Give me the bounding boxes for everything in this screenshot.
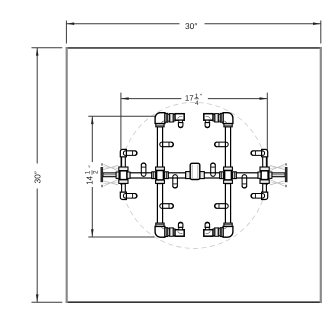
left column bottom elbow + nipple: [120, 192, 137, 199]
dimension 14 1/2 in: text "14 1/2" rotated with stacked fraction: [84, 165, 99, 185]
cross fitting on frame right pipe: [220, 167, 236, 183]
dimension 30in top: dimension line: [66, 23, 320, 25]
right spray fan: [270, 163, 286, 187]
corner elbow assembly bottom-left: [155, 222, 184, 237]
middle horizontal pipe segments: [130, 173, 152, 178]
center tee fitting: [186, 163, 205, 179]
dimension 30in top: arrowheads: [66, 22, 74, 25]
dimension 14 1/2 in: extension lines: [88, 116, 155, 237]
right column top elbow + nipple: [251, 149, 268, 156]
dimension 30in left: extension lines: [32, 48, 63, 302]
left spray fan: [102, 163, 118, 187]
dimension 14 1/2 in: arrowheads: [91, 116, 94, 124]
right tee-end bar: [285, 167, 288, 182]
corner elbow assembly bottom-right: [204, 222, 233, 237]
dimension 30in top: extension lines: [66, 21, 320, 44]
left stem pipe to tee-end: [103, 173, 116, 177]
corner elbow assembly top-right: [204, 113, 233, 128]
dimension 14 1/2 in: dimension line: [91, 116, 93, 237]
svg-text:2: 2: [93, 170, 100, 174]
left column pipes: [122, 157, 126, 167]
dimension 17 1/4 in: dimension line: [121, 98, 267, 100]
svg-text:1: 1: [84, 170, 91, 174]
svg-text:17: 17: [185, 94, 194, 103]
frame right vertical pipe (upper + lower): [225, 127, 230, 167]
left column top elbow + nipple: [120, 149, 137, 156]
capped risers on middle pipe: [141, 163, 146, 176]
right column cross: [258, 167, 272, 183]
dimension 17 1/4 in: extension lines: [121, 93, 267, 185]
corner elbow assembly top-left: [155, 113, 184, 128]
outer square 30x30: [66, 47, 322, 303]
inward nipples on frame left pipe: [160, 142, 174, 147]
right column bottom elbow + nipple: [251, 192, 268, 199]
svg-text:30″: 30″: [32, 171, 42, 183]
frame left vertical pipe (upper + lower): [157, 127, 162, 167]
svg-text:30″: 30″: [185, 21, 197, 31]
left column cross: [116, 167, 130, 183]
svg-text:4: 4: [195, 100, 199, 107]
svg-text:14: 14: [86, 175, 95, 184]
dimension 17 1/4 in: arrowheads: [121, 97, 129, 100]
inward nipples on frame right pipe: [215, 142, 229, 147]
right stem pipe to tee-end: [272, 173, 285, 177]
left tee-end bar: [101, 167, 104, 182]
cross fitting on frame left pipe: [152, 167, 168, 183]
dimension 30in left: arrowheads: [36, 48, 39, 56]
dashed circle (17 1/4 in rim): [121, 102, 267, 248]
right column pipes: [263, 157, 267, 167]
dimension 17 1/4 in: text "17 1/4" with stacked fraction: [185, 93, 203, 107]
dimension 30in left: dimension line: [36, 48, 38, 302]
